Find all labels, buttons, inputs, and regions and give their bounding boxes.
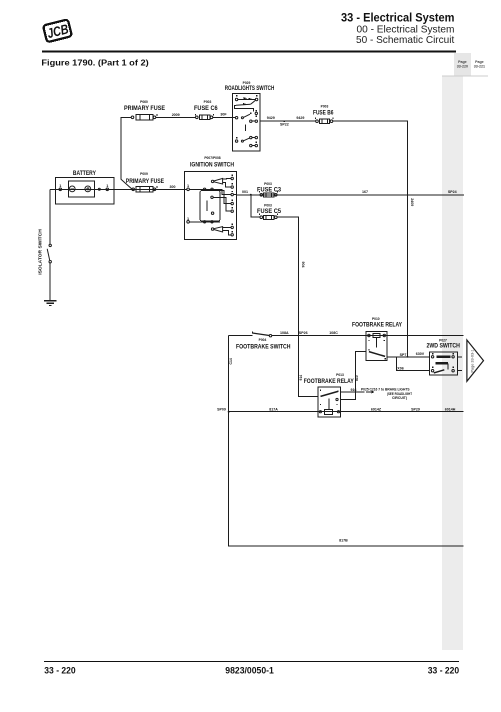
svg-text:2009: 2009 xyxy=(172,113,180,117)
primary fuse F2 (lower) xyxy=(132,186,187,192)
svg-text:P007/P008: P007/P008 xyxy=(204,156,220,160)
brake lights note arrow xyxy=(366,391,375,394)
svg-text:P060: P060 xyxy=(140,100,148,104)
footbrake switch xyxy=(252,332,271,337)
page continuation gray band xyxy=(442,76,463,650)
svg-text:9823/0050-1: 9823/0050-1 xyxy=(225,666,273,676)
svg-text:916: 916 xyxy=(351,388,357,392)
svg-text:1: 1 xyxy=(59,184,61,188)
svg-text:FOOTBRAKE SWITCH: FOOTBRAKE SWITCH xyxy=(236,343,291,350)
fuse C6 xyxy=(196,114,214,120)
svg-text:ROADLIGHTS SWITCH: ROADLIGHTS SWITCH xyxy=(225,85,275,92)
svg-text:Page: Page xyxy=(458,60,467,64)
isolator switch S1 xyxy=(47,244,51,263)
wire 2WD bottom stub xyxy=(458,370,463,372)
wire footbrake left return xyxy=(229,336,464,546)
svg-text:P003: P003 xyxy=(204,100,212,104)
svg-text:P009: P009 xyxy=(140,172,148,176)
svg-text:817A: 817A xyxy=(269,407,278,411)
svg-text:33-221: 33-221 xyxy=(474,65,485,69)
svg-text:6914Z: 6914Z xyxy=(371,407,382,411)
wire riser to top primary fuse xyxy=(121,117,131,179)
wire isolator drop xyxy=(49,189,51,244)
svg-text:P003: P003 xyxy=(321,104,329,108)
wire branch to 2WD lower xyxy=(396,357,429,371)
page continuation arrow xyxy=(467,340,484,381)
ignition switch xyxy=(184,172,236,240)
wire footbrake switch to page edge xyxy=(272,335,464,337)
node SP22 xyxy=(284,121,286,123)
wire 2WD top stub xyxy=(458,356,463,358)
svg-text:001: 001 xyxy=(242,190,248,194)
svg-text:PRIMARY FUSE: PRIMARY FUSE xyxy=(124,105,165,112)
svg-text:630V: 630V xyxy=(416,352,425,356)
svg-text:1: 1 xyxy=(187,217,189,221)
svg-text:9429: 9429 xyxy=(267,116,275,120)
footbrake relay P010 xyxy=(366,331,387,360)
svg-text:SP22: SP22 xyxy=(280,123,289,127)
svg-text:904: 904 xyxy=(301,262,305,268)
footer rule xyxy=(44,661,459,662)
svg-text:Page 33-03-1: Page 33-03-1 xyxy=(471,349,475,372)
wire fuse B6 to right drop xyxy=(333,121,408,357)
svg-text:FUSE C5: FUSE C5 xyxy=(257,208,282,215)
wire brake lights note xyxy=(341,391,365,393)
svg-text:CIRCUIT): CIRCUIT) xyxy=(392,396,407,400)
svg-text:914: 914 xyxy=(299,375,303,381)
svg-text:33 - 220: 33 - 220 xyxy=(44,666,75,676)
svg-text:2409: 2409 xyxy=(410,198,414,206)
svg-text:FOOTBRAKE RELAY: FOOTBRAKE RELAY xyxy=(352,321,403,328)
wire fuse C6 to roadlights switch xyxy=(213,116,233,118)
svg-text:00 - Electrical System: 00 - Electrical System xyxy=(357,25,455,36)
svg-text:9429: 9429 xyxy=(296,116,304,120)
fuse B6 xyxy=(316,117,334,123)
svg-text:PRIMARY FUSE: PRIMARY FUSE xyxy=(126,178,164,185)
svg-text:X06: X06 xyxy=(397,367,403,371)
svg-text:P013: P013 xyxy=(336,373,344,377)
svg-text:(SEE ROADLIGHT: (SEE ROADLIGHT xyxy=(387,392,413,396)
ground xyxy=(44,301,56,306)
node fuse C3 branch xyxy=(250,194,252,196)
svg-text:SP29: SP29 xyxy=(411,407,420,411)
page tab 33-220 xyxy=(454,53,471,76)
svg-text:108C: 108C xyxy=(329,331,338,335)
node SP7 junction dot xyxy=(407,356,409,358)
header rule xyxy=(42,50,456,52)
wire relay P010 right exit to 2WD xyxy=(387,356,430,358)
svg-text:P003: P003 xyxy=(264,204,272,208)
svg-text:50 - Schematic Circuit: 50 - Schematic Circuit xyxy=(356,35,454,46)
2WD switch P027 xyxy=(430,352,458,375)
wire isolator to ground xyxy=(49,263,51,301)
svg-text:167: 167 xyxy=(362,190,368,194)
roadlights switch xyxy=(232,93,260,151)
battery B1 xyxy=(56,178,114,204)
wire battery main feed xyxy=(50,188,187,190)
svg-text:P004: P004 xyxy=(259,338,267,342)
svg-text:ISOLATOR SWITCH: ISOLATOR SWITCH xyxy=(38,229,44,275)
svg-text:IGNITION SWITCH: IGNITION SWITCH xyxy=(190,161,234,168)
svg-text:FUSE C6: FUSE C6 xyxy=(194,105,218,112)
primary fuse F1 (upper) xyxy=(131,114,157,120)
svg-text:6014H: 6014H xyxy=(445,407,456,411)
svg-text:1: 1 xyxy=(187,184,189,188)
svg-text:C14: C14 xyxy=(229,358,233,364)
footbrake relay P013 xyxy=(318,387,341,417)
wire ignition to right edge xyxy=(237,194,464,196)
wire fuse C5 branch xyxy=(251,195,260,217)
svg-text:Figure 1790. (Part 1 of 2): Figure 1790. (Part 1 of 2) xyxy=(41,57,148,67)
wire roadlights switch to fuse B6 xyxy=(260,120,316,122)
svg-text:2WD SWITCH: 2WD SWITCH xyxy=(427,342,461,349)
svg-text:FUSE C3: FUSE C3 xyxy=(257,186,282,193)
svg-text:Page: Page xyxy=(475,60,484,64)
wire top fuse to fuse C6 xyxy=(156,116,196,118)
svg-text:33 - 220: 33 - 220 xyxy=(428,666,459,676)
svg-text:P010: P010 xyxy=(372,317,380,321)
svg-text:SP7: SP7 xyxy=(400,353,407,357)
svg-text:33 - Electrical System: 33 - Electrical System xyxy=(341,11,455,25)
svg-text:P025 C216 7 to BRAKE LIGHTS: P025 C216 7 to BRAKE LIGHTS xyxy=(361,387,410,391)
svg-text:FOOTBRAKE RELAY: FOOTBRAKE RELAY xyxy=(304,378,355,385)
svg-text:33-220: 33-220 xyxy=(457,65,468,69)
svg-text:810: 810 xyxy=(355,375,359,381)
svg-text:SP09: SP09 xyxy=(217,407,226,411)
svg-text:300: 300 xyxy=(170,185,176,189)
svg-text:SP24: SP24 xyxy=(448,190,457,194)
fuse C3 xyxy=(260,191,278,197)
fuse C5 xyxy=(260,213,278,219)
svg-text:108A: 108A xyxy=(280,331,289,335)
svg-text:SP26: SP26 xyxy=(299,331,308,335)
svg-text:30F: 30F xyxy=(220,113,227,117)
page tab 33-221 xyxy=(442,53,488,76)
wire footbrake switch row xyxy=(229,335,253,337)
svg-text:BATTERY: BATTERY xyxy=(73,170,97,177)
wire fuse C5 down drop xyxy=(277,217,318,396)
svg-text:1: 1 xyxy=(106,184,108,188)
wire relay P010 left exit xyxy=(341,352,366,400)
svg-text:817B: 817B xyxy=(339,539,348,543)
svg-text:FUSE B6: FUSE B6 xyxy=(313,109,334,116)
JCB logo xyxy=(43,19,72,42)
wire bottom rail SP09 xyxy=(229,411,464,413)
